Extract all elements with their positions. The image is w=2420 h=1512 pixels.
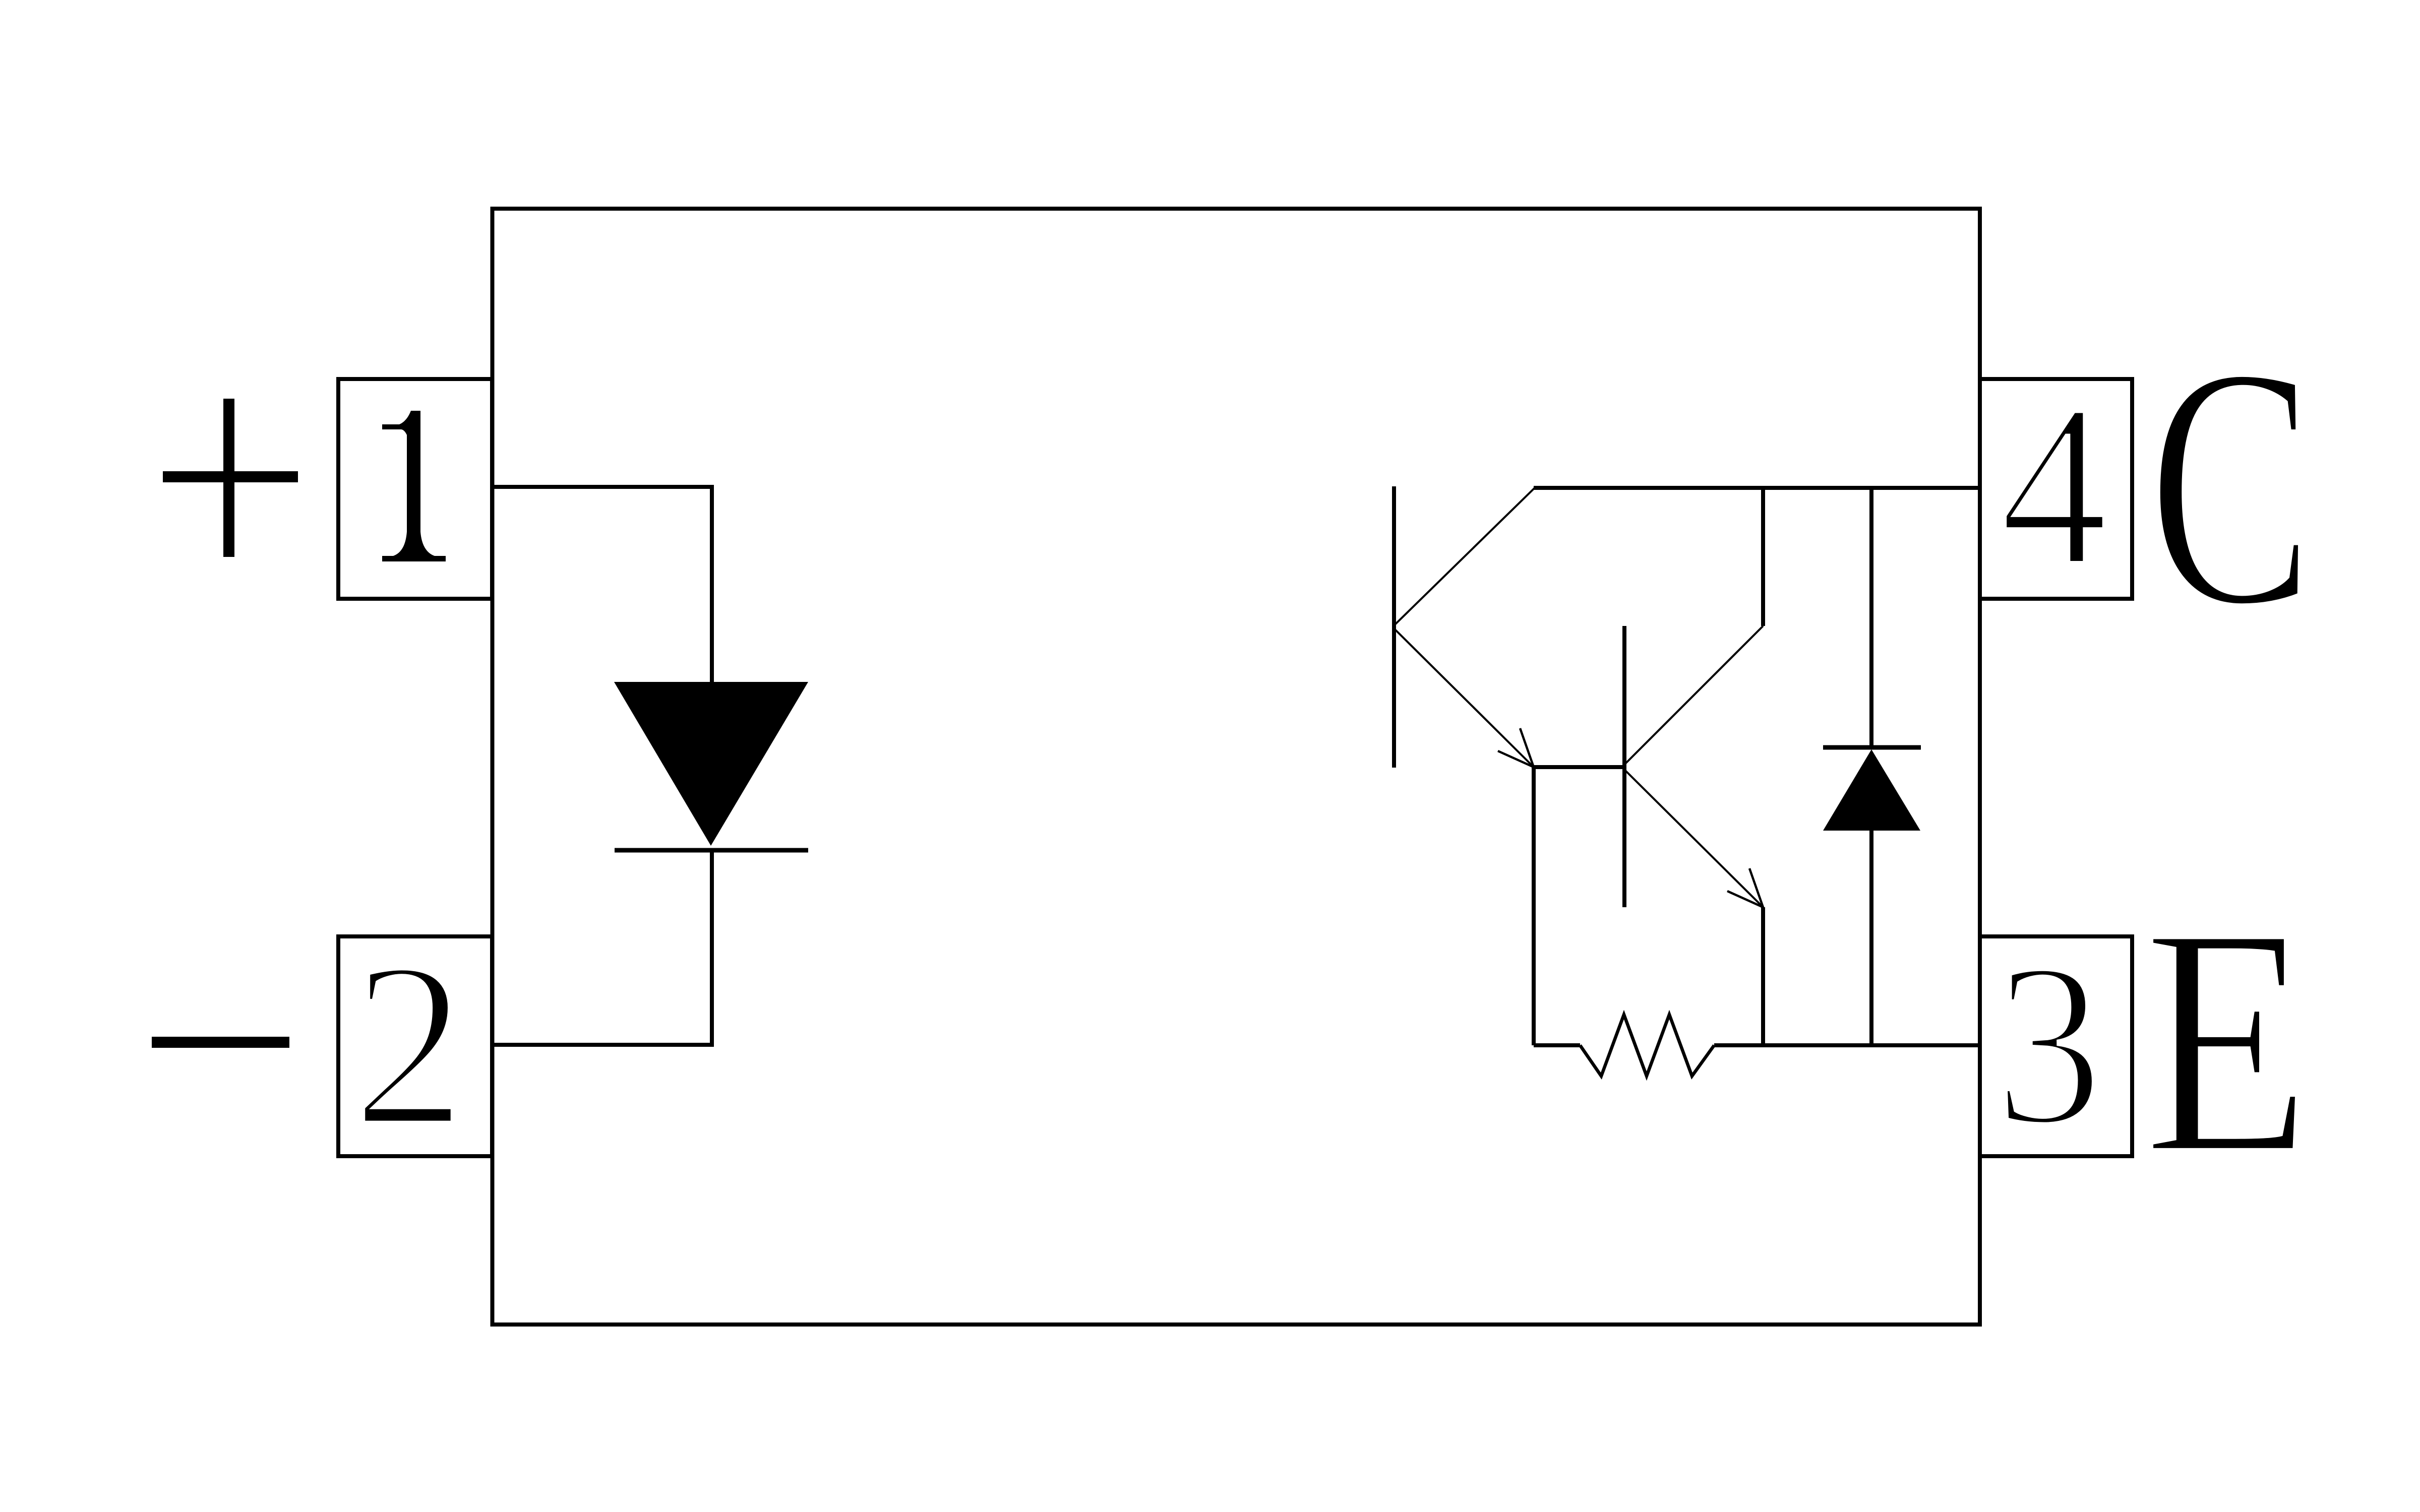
wire: bottom rail left segment [1534, 1043, 1580, 1047]
wire: LED cathode to pin2 [492, 850, 712, 1045]
Q2 emitter arrowhead [1727, 868, 1763, 907]
pin 4 box [1980, 379, 2132, 599]
diode D2 cathode wire from top rail [1869, 488, 1873, 747]
plus polarity label [163, 399, 298, 557]
Q1 emitter arrowhead [1498, 728, 1534, 767]
LED D1 cathode bar [615, 848, 808, 853]
Q1 collector diagonal [1394, 488, 1535, 625]
Q1 emitter diagonal [1394, 628, 1534, 767]
transistor Q2 base bar [1622, 626, 1626, 907]
wire: top rail to pin4 [1534, 486, 1980, 490]
svg-text:C: C [2148, 295, 2314, 678]
pin 1 box [338, 379, 492, 599]
svg-text:E: E [2143, 859, 2311, 1222]
resistor R1 zigzag [1580, 1015, 1714, 1076]
diode D2 anode triangle [1823, 749, 1920, 831]
wire: Q2 collector riser to top rail [1761, 488, 1765, 626]
wire: Q1 emitter down to bottom rail [1532, 767, 1536, 1045]
diode D2 cathode bar [1823, 745, 1921, 750]
Q2 collector diagonal [1624, 626, 1763, 765]
pin 1 number label [382, 411, 446, 561]
phototransistor Q1 base bar [1392, 486, 1396, 768]
diode D2 anode wire to bottom rail [1869, 831, 1873, 1045]
pin 3 box [1980, 936, 2132, 1156]
wire: Q1 emitter to Q2 base [1534, 765, 1624, 769]
minus polarity label [152, 1037, 289, 1048]
IC body outline U1 [493, 209, 1980, 1325]
wire: bottom rail right segment to pin3 [1714, 1043, 1980, 1047]
svg-text:4: 4 [2000, 356, 2108, 615]
wire: pin1 to LED anode [492, 487, 712, 683]
pin 2 box [338, 936, 492, 1156]
wire: Q2 emitter down to bottom rail [1761, 907, 1765, 1045]
Q2 emitter diagonal [1624, 770, 1763, 907]
LED D1 anode triangle [614, 682, 808, 846]
svg-text:3: 3 [1994, 915, 2103, 1174]
svg-text:2: 2 [352, 913, 466, 1175]
